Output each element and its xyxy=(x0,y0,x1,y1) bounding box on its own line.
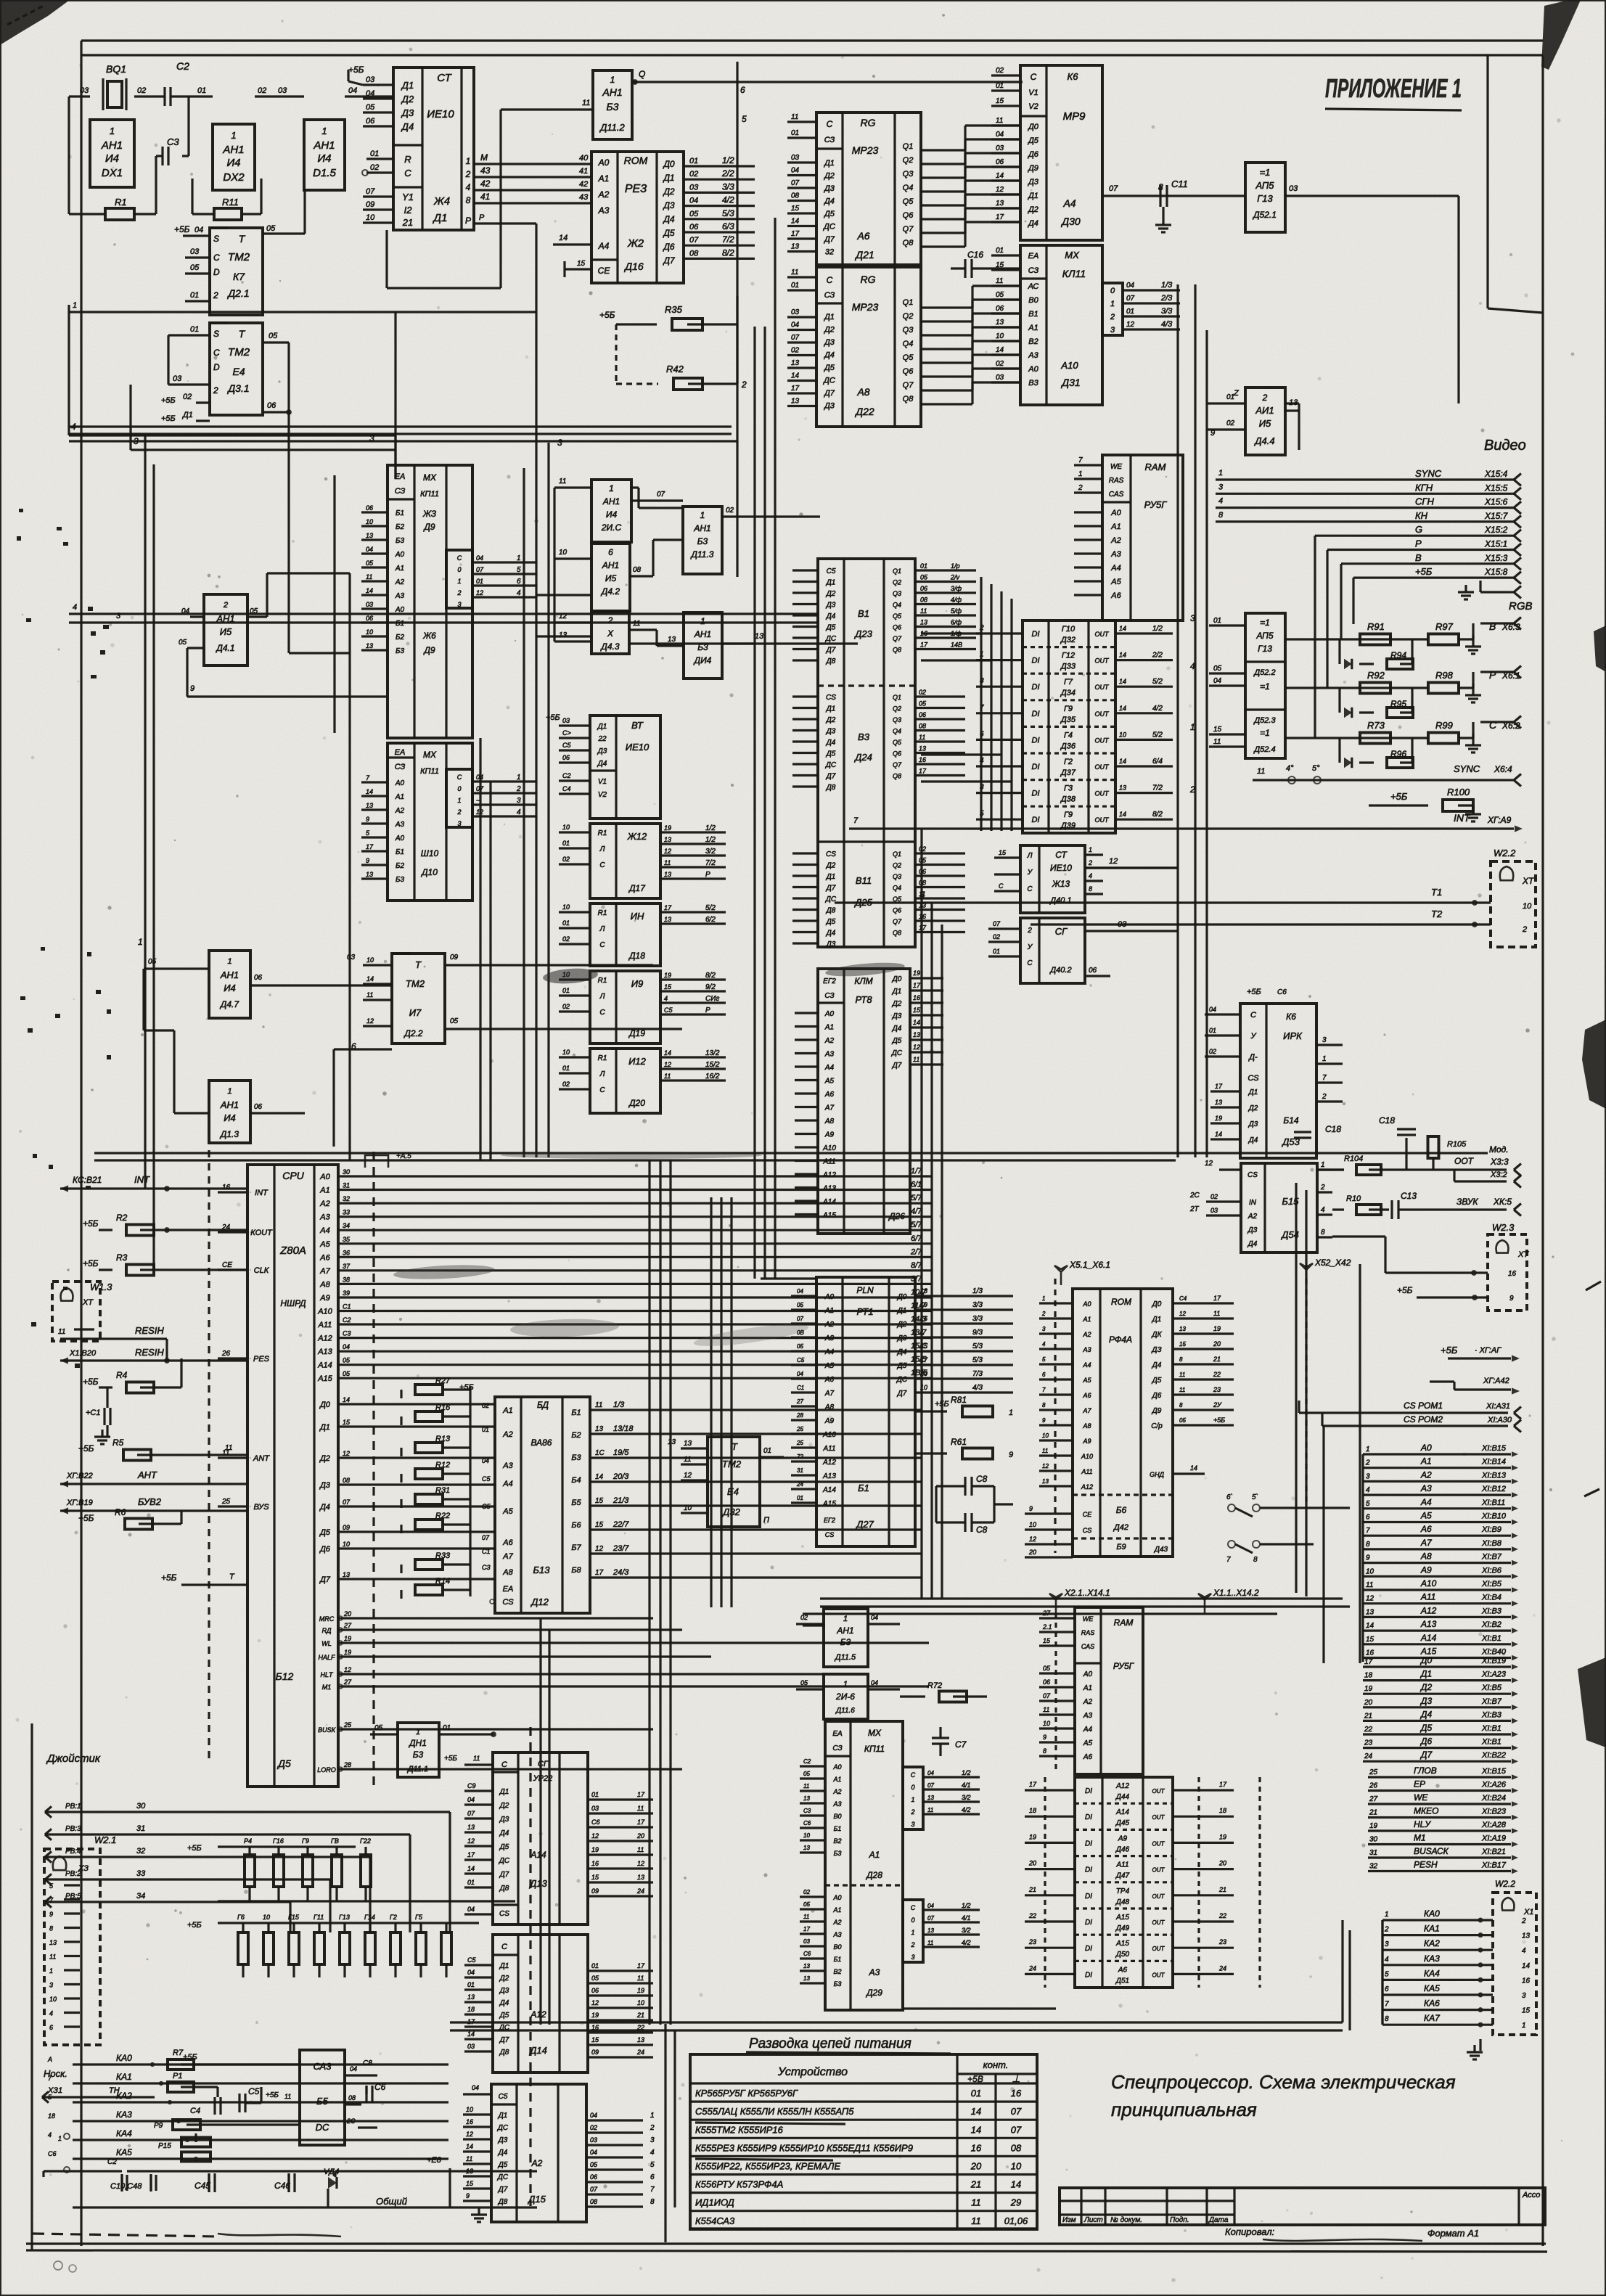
svg-text:А2: А2 xyxy=(1110,536,1120,545)
svg-text:03: 03 xyxy=(1210,1207,1218,1214)
svg-text:0: 0 xyxy=(911,1916,914,1924)
svg-text:03: 03 xyxy=(366,601,373,608)
svg-text:R91: R91 xyxy=(1367,621,1385,632)
svg-text:07: 07 xyxy=(1011,2124,1022,2135)
svg-text:С: С xyxy=(501,1760,507,1769)
svg-text:01: 01 xyxy=(562,987,570,994)
svg-text:Г10: Г10 xyxy=(1062,625,1076,634)
svg-text:WL: WL xyxy=(321,1640,332,1647)
svg-text:ДИ4: ДИ4 xyxy=(693,655,712,665)
svg-text:Д2: Д2 xyxy=(319,1454,330,1463)
svg-text:05: 05 xyxy=(590,2161,598,2168)
svg-text:А8: А8 xyxy=(1420,1551,1432,1562)
svg-text:Д34: Д34 xyxy=(1060,689,1076,697)
svg-text:КП11: КП11 xyxy=(420,767,439,776)
svg-text:13: 13 xyxy=(1522,1932,1531,1940)
svg-text:0: 0 xyxy=(1110,287,1115,295)
svg-text:24: 24 xyxy=(636,2049,644,2056)
svg-text:А12: А12 xyxy=(317,1334,332,1343)
svg-text:R4: R4 xyxy=(116,1370,128,1380)
svg-text:04: 04 xyxy=(467,1906,475,1913)
svg-text:Р: Р xyxy=(1415,538,1422,549)
svg-text:А10: А10 xyxy=(1081,1453,1093,1460)
svg-text:31: 31 xyxy=(797,1467,803,1474)
svg-text:10: 10 xyxy=(49,1996,57,2003)
svg-text:07: 07 xyxy=(1109,184,1118,193)
svg-text:17: 17 xyxy=(637,1962,645,1969)
svg-text:ОUТ: ОUТ xyxy=(1152,1919,1165,1926)
svg-text:АН1: АН1 xyxy=(101,139,123,152)
svg-text:Q1: Q1 xyxy=(903,298,914,307)
svg-text:С: С xyxy=(457,774,462,781)
svg-text:11: 11 xyxy=(913,1056,919,1063)
svg-text:42: 42 xyxy=(579,180,588,189)
svg-text:15: 15 xyxy=(595,1521,604,1529)
svg-text:Ж13: Ж13 xyxy=(1052,879,1070,889)
svg-text:02: 02 xyxy=(183,393,192,401)
svg-text:КП11: КП11 xyxy=(864,1744,885,1754)
svg-text:А1: А1 xyxy=(832,1906,841,1914)
svg-text:5: 5 xyxy=(742,114,747,124)
svg-text:WЕ: WЕ xyxy=(1414,1792,1428,1803)
svg-text:19: 19 xyxy=(1369,1822,1378,1830)
svg-text:Б13: Б13 xyxy=(533,1565,551,1575)
svg-text:СГ: СГ xyxy=(1055,926,1068,937)
svg-text:13: 13 xyxy=(913,1031,920,1038)
svg-text:Д1: Д1 xyxy=(1027,192,1038,200)
svg-text:01: 01 xyxy=(763,1447,771,1455)
svg-text:24: 24 xyxy=(1364,1752,1373,1760)
svg-text:31: 31 xyxy=(343,1182,350,1189)
svg-text:1: 1 xyxy=(49,1967,53,1975)
svg-text:Д4: Д4 xyxy=(499,1829,509,1837)
svg-text:+5Б: +5Б xyxy=(1390,791,1408,802)
svg-text:Ж2: Ж2 xyxy=(627,237,644,250)
svg-text:СГ: СГ xyxy=(538,1760,549,1768)
svg-text:Д35: Д35 xyxy=(1060,716,1076,724)
svg-text:Видео: Видео xyxy=(1484,438,1526,454)
svg-text:04: 04 xyxy=(343,1343,350,1350)
svg-text:5: 5 xyxy=(49,1882,54,1890)
svg-text:ХТ: ХТ xyxy=(1522,876,1535,886)
svg-text:11: 11 xyxy=(919,734,925,741)
svg-text:КА0: КА0 xyxy=(1424,1908,1440,1919)
svg-text:Z: Z xyxy=(1233,389,1240,398)
svg-text:11: 11 xyxy=(637,1846,644,1853)
svg-text:ХI:В1: ХI:В1 xyxy=(1481,1738,1501,1747)
svg-text:01: 01 xyxy=(797,1495,803,1501)
svg-text:Q7: Q7 xyxy=(893,635,902,642)
svg-text:А1: А1 xyxy=(395,793,404,801)
svg-text:18: 18 xyxy=(1029,1807,1036,1814)
svg-text:Д3: Д3 xyxy=(1419,1696,1432,1706)
svg-text:Ж6: Ж6 xyxy=(422,631,436,641)
svg-text:1: 1 xyxy=(610,75,615,85)
svg-text:02: 02 xyxy=(1210,1193,1218,1200)
svg-text:17: 17 xyxy=(996,213,1004,221)
svg-text:Q3: Q3 xyxy=(893,590,901,597)
svg-text:WЕ: WЕ xyxy=(1083,1615,1094,1623)
svg-text:СЕ: СЕ xyxy=(222,1261,232,1269)
svg-text:Q6: Q6 xyxy=(903,367,914,376)
svg-text:04: 04 xyxy=(482,1457,489,1464)
svg-text:13: 13 xyxy=(343,1571,350,1578)
svg-text:А1: А1 xyxy=(869,1850,880,1860)
svg-text:SYNC: SYNC xyxy=(1415,468,1442,479)
svg-text:А9: А9 xyxy=(1420,1565,1432,1575)
svg-text:МХ: МХ xyxy=(868,1728,882,1738)
svg-text:21: 21 xyxy=(1369,1809,1377,1817)
svg-text:12: 12 xyxy=(913,1044,920,1051)
svg-text:13: 13 xyxy=(803,1795,810,1802)
svg-text:36: 36 xyxy=(343,1249,350,1256)
svg-text:23: 23 xyxy=(1213,1386,1221,1393)
svg-text:11: 11 xyxy=(1213,738,1221,746)
svg-text:4: 4 xyxy=(73,603,77,612)
svg-text:13: 13 xyxy=(366,642,373,649)
svg-text:Д5: Д5 xyxy=(499,1843,509,1851)
svg-text:9: 9 xyxy=(366,857,369,864)
svg-text:13: 13 xyxy=(664,836,671,843)
svg-text:5: 5 xyxy=(366,829,370,837)
svg-text:12: 12 xyxy=(467,1837,475,1845)
svg-text:V1: V1 xyxy=(598,778,607,786)
svg-text:КЛ11: КЛ11 xyxy=(1062,268,1086,279)
svg-text:1: 1 xyxy=(843,1615,848,1623)
svg-text:В2: В2 xyxy=(1028,337,1038,346)
svg-text:08: 08 xyxy=(590,2198,597,2205)
svg-text:14: 14 xyxy=(595,1473,604,1481)
svg-text:26: 26 xyxy=(1369,1782,1378,1790)
svg-text:ХТ: ХТ xyxy=(1517,1250,1529,1259)
svg-text:А1: А1 xyxy=(395,565,404,573)
svg-text:СТ: СТ xyxy=(1055,850,1068,860)
svg-text:10: 10 xyxy=(1366,1567,1374,1575)
svg-text:С5: С5 xyxy=(467,1956,476,1964)
svg-text:Г6: Г6 xyxy=(237,1914,245,1921)
svg-text:R96: R96 xyxy=(1390,749,1406,759)
svg-text:19: 19 xyxy=(664,824,671,832)
svg-text:Б9: Б9 xyxy=(1116,1543,1126,1551)
svg-text:А0: А0 xyxy=(832,1763,841,1771)
svg-text:Х3:3: Х3:3 xyxy=(1490,1157,1509,1167)
svg-text:07: 07 xyxy=(476,566,484,573)
svg-text:16: 16 xyxy=(466,2118,473,2125)
svg-text:23: 23 xyxy=(1218,1938,1226,1946)
svg-text:R5: R5 xyxy=(112,1438,124,1448)
svg-text:И4: И4 xyxy=(105,152,119,165)
svg-text:А0: А0 xyxy=(395,551,405,559)
svg-text:ХI:В3: ХI:В3 xyxy=(1481,1607,1502,1615)
svg-text:11: 11 xyxy=(803,1914,809,1920)
svg-text:13: 13 xyxy=(927,1795,934,1801)
svg-text:DI: DI xyxy=(1032,736,1040,745)
svg-text:01: 01 xyxy=(467,1981,475,1988)
svg-text:Q5: Q5 xyxy=(903,197,914,206)
svg-text:Д7: Д7 xyxy=(826,885,836,893)
svg-text:ЕА: ЕА xyxy=(503,1585,514,1594)
svg-text:ТН: ТН xyxy=(109,2086,120,2095)
svg-text:Г14: Г14 xyxy=(364,1914,375,1921)
svg-text:С: С xyxy=(599,1086,605,1094)
svg-text:35: 35 xyxy=(343,1236,351,1243)
svg-text:Ж4: Ж4 xyxy=(433,195,450,208)
svg-text:16: 16 xyxy=(591,1860,599,1867)
svg-text:04: 04 xyxy=(689,197,698,205)
svg-text:03: 03 xyxy=(591,1805,599,1812)
svg-text:РЕSН: РЕSН xyxy=(1414,1860,1438,1870)
svg-text:конт.: конт. xyxy=(983,2059,1009,2070)
svg-text:А2: А2 xyxy=(832,1919,841,1926)
svg-text:5: 5 xyxy=(517,566,521,574)
svg-text:12: 12 xyxy=(476,589,483,596)
svg-text:10: 10 xyxy=(1011,2161,1022,2172)
svg-text:Д1: Д1 xyxy=(433,212,448,224)
svg-text:Д5: Д5 xyxy=(826,624,836,632)
svg-text:Т2: Т2 xyxy=(1431,909,1443,919)
svg-text:Д49: Д49 xyxy=(1115,1924,1130,1932)
svg-text:К6: К6 xyxy=(1286,1012,1296,1022)
svg-text:01: 01 xyxy=(562,1065,570,1072)
svg-text:2: 2 xyxy=(465,169,471,179)
svg-text:А3: А3 xyxy=(1110,550,1121,559)
svg-text:Д5: Д5 xyxy=(662,228,674,238)
svg-text:А5: А5 xyxy=(824,1362,835,1370)
svg-text:Мод.: Мод. xyxy=(1489,1144,1509,1155)
svg-text:А3: А3 xyxy=(502,1461,513,1470)
svg-text:02: 02 xyxy=(993,933,1000,940)
svg-text:03: 03 xyxy=(791,154,800,162)
svg-text:6: 6 xyxy=(49,2024,53,2031)
svg-text:14: 14 xyxy=(1366,1622,1374,1630)
svg-text:ХI:А19: ХI:А19 xyxy=(1481,1834,1506,1843)
svg-text:МХ: МХ xyxy=(1065,250,1080,261)
svg-text:С1: С1 xyxy=(343,1303,351,1311)
svg-text:30: 30 xyxy=(136,1802,146,1811)
svg-text:Q5: Q5 xyxy=(903,353,914,362)
svg-text:4: 4 xyxy=(1385,1956,1389,1964)
svg-text:4: 4 xyxy=(1522,1947,1526,1955)
svg-text:01: 01 xyxy=(591,1962,599,1969)
svg-text:7/2: 7/2 xyxy=(722,234,734,245)
svg-text:Д9: Д9 xyxy=(1027,164,1038,173)
svg-text:05: 05 xyxy=(797,1343,803,1350)
svg-text:08: 08 xyxy=(920,596,927,604)
svg-text:С5: С5 xyxy=(797,1357,805,1364)
svg-text:03: 03 xyxy=(689,183,699,192)
svg-text:А0: А0 xyxy=(598,157,610,168)
svg-text:Х52_Х42: Х52_Х42 xyxy=(1314,1258,1351,1268)
svg-text:11: 11 xyxy=(49,1953,56,1961)
svg-text:М: М xyxy=(480,152,488,163)
svg-text:НАLF: НАLF xyxy=(318,1654,335,1661)
svg-text:3: 3 xyxy=(1322,1036,1327,1044)
svg-text:А14: А14 xyxy=(317,1361,332,1370)
svg-text:Х15:4: Х15:4 xyxy=(1484,469,1508,479)
svg-text:07: 07 xyxy=(797,1316,803,1322)
svg-text:Д39: Д39 xyxy=(1060,821,1076,830)
svg-text:02: 02 xyxy=(1226,419,1235,427)
svg-text:2.1: 2.1 xyxy=(1042,1623,1052,1631)
svg-text:8: 8 xyxy=(1179,1356,1183,1363)
svg-text:R11: R11 xyxy=(222,197,239,208)
svg-text:D: D xyxy=(213,267,220,277)
svg-text:14: 14 xyxy=(366,788,373,795)
svg-text:СА3: СА3 xyxy=(314,2061,332,2072)
svg-text:02: 02 xyxy=(562,1081,570,1088)
svg-text:Q1: Q1 xyxy=(903,142,914,151)
svg-text:05: 05 xyxy=(803,1901,810,1908)
svg-text:Б1: Б1 xyxy=(834,1825,842,1832)
svg-text:02: 02 xyxy=(258,86,266,95)
svg-text:С6: С6 xyxy=(48,2150,57,2157)
svg-text:11: 11 xyxy=(803,1783,809,1789)
svg-text:А11: А11 xyxy=(1420,1592,1435,1602)
svg-text:7/2: 7/2 xyxy=(705,859,716,867)
svg-text:1: 1 xyxy=(517,774,521,782)
svg-text:А2: А2 xyxy=(832,1788,841,1795)
svg-text:R1: R1 xyxy=(598,1054,607,1062)
svg-text:ДС: ДС xyxy=(822,223,835,231)
svg-text:АНТ: АНТ xyxy=(137,1469,157,1480)
svg-text:СГН: СГН xyxy=(1415,496,1434,507)
svg-text:Б1: Б1 xyxy=(396,509,404,517)
svg-text:14В: 14В xyxy=(951,641,962,649)
svg-text:20: 20 xyxy=(1028,1860,1036,1867)
svg-text:13: 13 xyxy=(791,243,800,251)
svg-text:Общий: Общий xyxy=(376,2196,407,2207)
svg-text:Д6: Д6 xyxy=(662,242,674,252)
svg-text:А15: А15 xyxy=(822,1212,836,1220)
svg-text:R12: R12 xyxy=(435,1461,450,1469)
svg-text:SYNC: SYNC xyxy=(1454,763,1480,774)
svg-text:19/5: 19/5 xyxy=(613,1448,629,1457)
svg-text:05: 05 xyxy=(803,1771,810,1777)
svg-text:А2: А2 xyxy=(824,1037,835,1045)
svg-text:R33: R33 xyxy=(435,1551,451,1560)
svg-text:10: 10 xyxy=(1523,902,1532,911)
svg-text:А7: А7 xyxy=(824,1390,835,1398)
svg-text:И5: И5 xyxy=(605,573,617,583)
svg-text:4: 4 xyxy=(517,808,521,816)
svg-text:Д4: Д4 xyxy=(892,1025,902,1033)
svg-text:+5Б: +5Б xyxy=(174,224,190,234)
svg-text:14: 14 xyxy=(1522,1962,1531,1970)
svg-text:Д1: Д1 xyxy=(826,873,836,881)
svg-text:Б3: Б3 xyxy=(396,647,405,655)
svg-text:11: 11 xyxy=(664,859,671,866)
svg-text:А6: А6 xyxy=(856,230,869,242)
svg-text:АН1: АН1 xyxy=(220,969,239,980)
svg-text:Д47: Д47 xyxy=(1115,1872,1130,1880)
svg-text:С13: С13 xyxy=(1401,1191,1417,1201)
svg-text:В2: В2 xyxy=(833,1968,841,1975)
svg-text:С2: С2 xyxy=(343,1316,351,1324)
svg-text:Д7: Д7 xyxy=(499,2036,509,2044)
svg-text:Q7: Q7 xyxy=(903,225,914,234)
svg-text:ЕГ2: ЕГ2 xyxy=(823,977,836,985)
svg-text:А0: А0 xyxy=(1420,1443,1432,1453)
svg-text:13: 13 xyxy=(996,319,1004,327)
svg-text:А3: А3 xyxy=(1083,1712,1093,1720)
svg-text:OUT: OUT xyxy=(1095,631,1110,638)
svg-text:С: С xyxy=(1027,959,1033,967)
svg-text:БУВ2: БУВ2 xyxy=(138,1496,162,1507)
svg-text:СЗ: СЗ xyxy=(832,1744,842,1752)
svg-text:07: 07 xyxy=(657,491,665,499)
svg-text:· ХГ:АГ: · ХГ:АГ xyxy=(1475,1346,1501,1355)
svg-text:04: 04 xyxy=(797,1288,803,1295)
svg-text:12: 12 xyxy=(1126,321,1135,329)
svg-text:Д2.2: Д2.2 xyxy=(403,1028,422,1038)
svg-text:01: 01 xyxy=(996,247,1004,255)
svg-text:07: 07 xyxy=(1011,2106,1022,2117)
svg-text:Г13: Г13 xyxy=(339,1914,350,1921)
svg-text:принципиальная: принципиальная xyxy=(1111,2099,1257,2120)
svg-text:1: 1 xyxy=(73,301,77,310)
svg-text:4: 4 xyxy=(1089,872,1092,880)
svg-text:R94: R94 xyxy=(1390,650,1406,660)
svg-text:RGB: RGB xyxy=(1509,600,1533,612)
svg-text:3: 3 xyxy=(369,433,374,443)
svg-text:1: 1 xyxy=(321,126,327,136)
svg-text:14: 14 xyxy=(559,234,568,242)
svg-text:34: 34 xyxy=(136,1892,145,1901)
svg-text:А5: А5 xyxy=(319,1240,330,1249)
svg-text:МР23: МР23 xyxy=(852,144,879,156)
svg-text:Д4: Д4 xyxy=(1248,1136,1258,1144)
svg-text:А4: А4 xyxy=(1082,1361,1091,1369)
svg-text:11: 11 xyxy=(791,268,798,276)
svg-text:02: 02 xyxy=(562,935,570,943)
svg-text:АН1: АН1 xyxy=(602,560,619,570)
svg-text:Д9: Д9 xyxy=(1152,1407,1162,1415)
svg-text:МР9: МР9 xyxy=(1063,110,1086,123)
svg-text:13/7: 13/7 xyxy=(911,1329,927,1337)
svg-text:3: 3 xyxy=(911,1953,914,1961)
svg-text:06: 06 xyxy=(590,2173,597,2181)
svg-text:17: 17 xyxy=(637,1819,645,1826)
svg-text:Д4: Д4 xyxy=(498,2149,508,2157)
svg-text:Д11.3: Д11.3 xyxy=(690,549,714,559)
svg-text:6/ф: 6/ф xyxy=(951,619,962,626)
svg-text:R73: R73 xyxy=(1367,720,1385,731)
svg-text:Д19: Д19 xyxy=(628,1028,645,1038)
svg-text:ТР4: ТР4 xyxy=(1116,1887,1130,1895)
svg-text:03: 03 xyxy=(347,954,356,962)
svg-text:02: 02 xyxy=(137,86,146,95)
svg-text:Д2: Д2 xyxy=(826,716,836,724)
svg-text:Х1.1..Х14.2: Х1.1..Х14.2 xyxy=(1213,1588,1259,1598)
svg-text:С6: С6 xyxy=(803,1820,811,1826)
svg-text:Д22: Д22 xyxy=(854,406,874,417)
svg-text:Д1: Д1 xyxy=(181,411,193,419)
svg-text:20: 20 xyxy=(1028,1549,1036,1556)
svg-text:А8: А8 xyxy=(1082,1422,1091,1430)
svg-text:+5Б: +5Б xyxy=(1247,988,1261,996)
svg-text:08: 08 xyxy=(348,2094,356,2102)
svg-text:Д3: Д3 xyxy=(826,940,836,948)
svg-text:ПРИЛОЖЕНИЕ 1: ПРИЛОЖЕНИЕ 1 xyxy=(1325,73,1462,103)
svg-text:V2: V2 xyxy=(1028,102,1038,111)
svg-text:03: 03 xyxy=(803,1938,810,1945)
svg-text:Д4: Д4 xyxy=(319,1503,330,1512)
svg-text:Q2: Q2 xyxy=(903,312,914,321)
svg-text:11: 11 xyxy=(595,1401,602,1409)
svg-text:11: 11 xyxy=(366,573,372,581)
svg-text:Д5: Д5 xyxy=(823,210,835,218)
svg-text:1: 1 xyxy=(1078,470,1083,478)
